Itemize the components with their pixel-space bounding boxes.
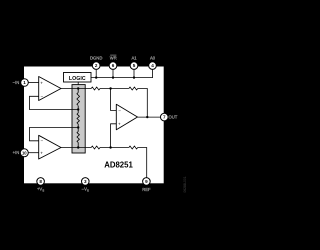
wire: A3 output to pin 7 [138, 116, 162, 118]
svg-text:+IN: +IN [13, 150, 20, 155]
svg-text:−: − [118, 108, 121, 113]
node: bus junction under pin 6 [112, 76, 114, 78]
node: chain bottom junction [77, 146, 79, 148]
wire: pin6 stub [112, 66, 114, 78]
net label WR (active low) [110, 55, 117, 60]
svg-text:A0: A0 [150, 56, 156, 61]
resistor R1 (top input) [91, 87, 100, 90]
wire: bottom rail to noninverting node [100, 147, 129, 149]
svg-text:4: 4 [151, 63, 154, 68]
logic block U2 [64, 73, 92, 83]
svg-text:9: 9 [145, 179, 148, 184]
pin 6 [109, 62, 117, 70]
resistor Rg1 [77, 93, 80, 106]
svg-text:2: 2 [95, 63, 98, 68]
pin 10 [20, 149, 28, 157]
node: noninverting input junction [109, 146, 111, 148]
node: bus junction under pin 5 [133, 76, 135, 78]
wire: inverting node to A3 minus input [111, 89, 117, 111]
node: chain tap 1 [77, 108, 79, 110]
svg-text:+VS: +VS [37, 187, 44, 193]
svg-text:AD8251: AD8251 [104, 160, 133, 169]
node: chain tap 2 [77, 126, 79, 128]
svg-text:+: + [118, 122, 121, 127]
wire: bottom rail from A2 output through gain network [61, 147, 92, 149]
wire: pin2 stub [95, 66, 97, 78]
pin 9 [143, 178, 151, 186]
svg-text:−: − [41, 139, 44, 144]
resistor R3 (bottom input) [91, 146, 100, 149]
pin 5 [130, 62, 138, 70]
pin 7 [161, 113, 169, 121]
pin 1 [21, 79, 29, 87]
svg-text:8: 8 [39, 179, 42, 184]
svg-text:7: 7 [163, 115, 166, 120]
wire: feedback to output node [138, 89, 148, 118]
pin 2 [92, 62, 100, 70]
wire: pin1 to A1 [28, 82, 39, 84]
wire: noninverting node to A3 plus input [111, 124, 117, 148]
svg-text:DGND: DGND [90, 56, 102, 61]
wire: top rail from A1 output through gain network [61, 88, 92, 90]
svg-text:A1: A1 [131, 56, 137, 61]
gain network box [72, 85, 85, 153]
pin 4 [149, 62, 157, 70]
op-amp A1 [39, 77, 61, 101]
svg-text:06288-001: 06288-001 [183, 176, 187, 192]
svg-text:OUT: OUT [169, 115, 178, 120]
svg-text:LOGIC: LOGIC [69, 76, 86, 82]
node: inverting input junction [109, 87, 111, 89]
wire: R4 to REF pin [138, 148, 147, 179]
svg-text:−VS: −VS [82, 187, 89, 193]
wire: pin4 stub and logic bus [91, 66, 153, 78]
svg-text:10: 10 [22, 150, 27, 155]
pin 8 [37, 178, 45, 186]
resistor Rg2 [77, 113, 79, 124]
svg-text:−IN: −IN [13, 80, 20, 85]
wire: pin10 to A2 [28, 152, 39, 154]
wire: chain segment [77, 106, 79, 113]
op-amp A2 [39, 135, 61, 159]
resistor R4 (to REF) [129, 146, 138, 149]
gain network chain top segment [77, 89, 79, 93]
svg-text:3: 3 [84, 179, 87, 184]
wire: top rail to inverting node [100, 88, 129, 90]
wire: A2 feedback tap [30, 128, 79, 141]
IC boundary box AD8251 [24, 67, 164, 184]
svg-text:+: + [40, 151, 43, 156]
svg-text:WR: WR [110, 56, 117, 61]
resistor Rg3 [77, 132, 79, 143]
svg-text:1: 1 [23, 80, 26, 85]
svg-text:6: 6 [112, 63, 115, 68]
node: output junction [146, 116, 148, 118]
svg-text:5: 5 [133, 63, 136, 68]
wire: logic to gain network [77, 82, 79, 89]
wire: chain segment [77, 124, 79, 132]
op-amp A3 (output) [116, 104, 137, 130]
svg-text:REF: REF [142, 187, 151, 192]
svg-text:−: − [41, 94, 44, 99]
wire: chain bottom segment [77, 143, 79, 148]
node: bus junction under pin 2 [95, 76, 97, 78]
resistor R2 (feedback) [129, 87, 138, 90]
wire: pin5 stub [133, 66, 135, 78]
pin 3 [82, 178, 90, 186]
svg-text:+: + [40, 80, 43, 85]
node: chain top junction [77, 87, 79, 89]
wire: A1 feedback tap [30, 96, 79, 109]
